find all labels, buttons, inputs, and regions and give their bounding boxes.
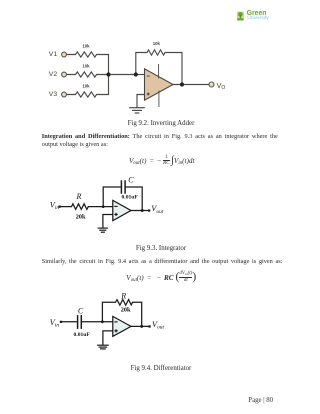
svg-text:0.01uF: 0.01uF [74,332,91,338]
svg-text:V1: V1 [49,51,58,58]
svg-text:in: in [55,205,59,211]
svg-text:V2: V2 [49,71,58,78]
svg-text:VO: VO [217,81,226,91]
svg-text:10k: 10k [82,43,90,48]
svg-text:C: C [128,176,134,185]
svg-text:0.01uF: 0.01uF [122,194,139,200]
svg-text:C: C [78,306,84,315]
svg-text:out: out [156,209,163,215]
svg-text:out: out [157,325,164,331]
svg-text:in: in [55,322,59,328]
svg-text:20k: 20k [121,307,131,314]
svg-text:20k: 20k [76,213,86,220]
svg-text:R: R [120,291,126,300]
svg-text:V3: V3 [49,91,58,98]
svg-text:10k: 10k [82,83,90,88]
svg-text:10k: 10k [82,63,90,68]
svg-text:R: R [76,192,82,201]
svg-text:10k: 10k [153,41,161,46]
